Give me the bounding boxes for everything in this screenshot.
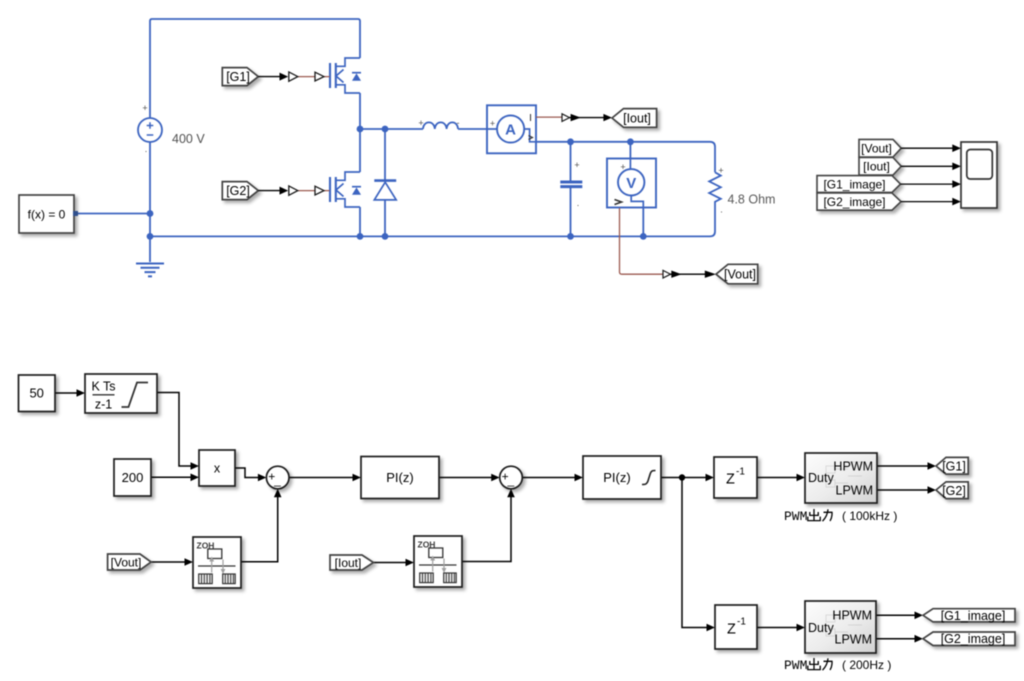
svg-text:+: + <box>418 118 423 128</box>
svg-text:[Vout]: [Vout] <box>861 142 892 156</box>
svg-text:PI(z): PI(z) <box>386 470 413 485</box>
svg-text:[G1_image]: [G1_image] <box>941 609 1006 623</box>
svg-text:z-1: z-1 <box>95 398 112 412</box>
svg-text:Z: Z <box>727 622 736 638</box>
svg-text:PI(z): PI(z) <box>603 470 630 485</box>
svg-text:V: V <box>626 175 636 192</box>
svg-text:_: _ <box>273 473 281 487</box>
svg-text:LPWM: LPWM <box>836 484 874 498</box>
svg-text:( 200Hz ): ( 200Hz ) <box>842 658 891 672</box>
svg-text:HPWM: HPWM <box>832 609 872 623</box>
svg-text:[Iout]: [Iout] <box>623 111 651 125</box>
svg-text:50: 50 <box>29 386 43 401</box>
svg-text:[G2]: [G2] <box>942 484 966 498</box>
svg-text:f(x) = 0: f(x) = 0 <box>28 208 66 222</box>
svg-text:[Iout]: [Iout] <box>335 556 362 570</box>
svg-text:.: . <box>577 198 580 208</box>
svg-text:[Vout]: [Vout] <box>111 555 142 569</box>
svg-text:[G1]: [G1] <box>226 70 250 84</box>
svg-text:Z: Z <box>726 472 735 488</box>
svg-text:.: . <box>145 144 148 154</box>
svg-text:[G2_image]: [G2_image] <box>823 195 885 209</box>
svg-text:PWM: PWM <box>784 509 807 524</box>
svg-text:4.8 Ohm: 4.8 Ohm <box>728 193 776 207</box>
svg-text:[G2]: [G2] <box>226 184 250 198</box>
svg-text:K Ts: K Ts <box>91 380 115 394</box>
svg-text:_: _ <box>506 473 514 487</box>
svg-text:-: - <box>457 118 460 128</box>
svg-text:200: 200 <box>122 470 144 485</box>
svg-text:( 100kHz ): ( 100kHz ) <box>842 509 897 523</box>
svg-text:I: I <box>529 113 532 124</box>
svg-text:+: + <box>490 119 495 129</box>
svg-text:[Vout]: [Vout] <box>724 268 756 282</box>
svg-text:LPWM: LPWM <box>835 633 873 647</box>
svg-text:Duty: Duty <box>808 621 834 635</box>
svg-text:PWM: PWM <box>784 658 807 673</box>
svg-text:-1: -1 <box>736 467 745 478</box>
svg-text:+: + <box>574 160 579 170</box>
svg-text:[Iout]: [Iout] <box>863 160 890 174</box>
svg-text:x: x <box>214 462 221 476</box>
svg-text:.: . <box>720 205 723 215</box>
svg-text:Duty: Duty <box>808 471 834 485</box>
svg-text:[G2_image]: [G2_image] <box>941 632 1006 646</box>
svg-text:-1: -1 <box>737 617 746 628</box>
svg-text:HPWM: HPWM <box>833 460 873 474</box>
svg-text:[G1]: [G1] <box>942 459 966 473</box>
svg-text:400 V: 400 V <box>172 132 205 146</box>
svg-text:[G1_image]: [G1_image] <box>823 177 885 191</box>
svg-text:A: A <box>505 122 516 139</box>
svg-text:+: + <box>142 103 147 113</box>
svg-text:+: + <box>620 162 625 172</box>
svg-text:+: + <box>718 166 723 176</box>
